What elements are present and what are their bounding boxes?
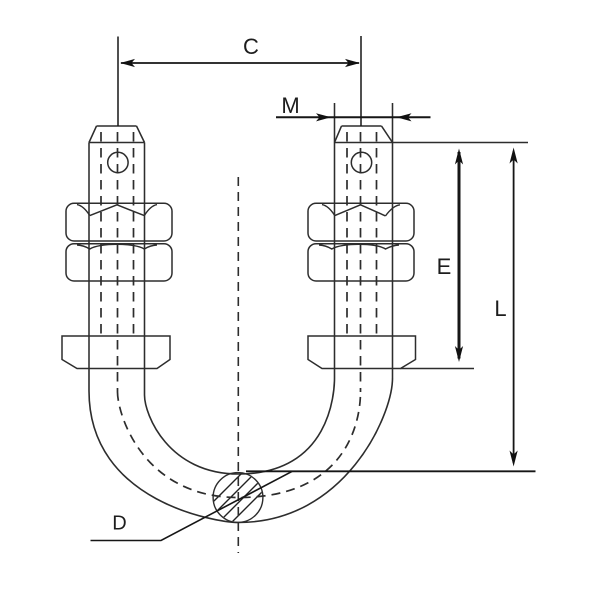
svg-text:L: L	[494, 296, 506, 321]
svg-text:D: D	[112, 513, 126, 535]
svg-text:C: C	[243, 34, 259, 59]
svg-text:M: M	[281, 93, 299, 118]
svg-text:E: E	[437, 254, 452, 279]
